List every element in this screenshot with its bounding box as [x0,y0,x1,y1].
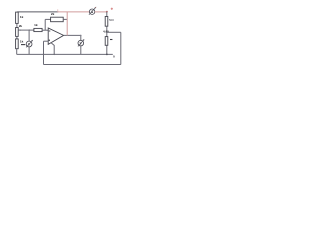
wire V2 bottom lead to ground bus [80,46,82,55]
svg-text:4.99: 4.99 [103,30,109,34]
wiper arrowhead into R2 [18,29,20,31]
svg-text:2k: 2k [19,24,23,28]
needle arrow of V2 [78,40,84,46]
node junction dot Rs-ground bus [106,54,108,56]
needle arrow of ammeter [89,8,95,15]
wire stub between R2 and R3 [16,36,18,39]
wire non-inverting input stub [44,40,49,42]
wire sense tap vertical down to bottom line [120,32,122,64]
resistor RL top right box [105,17,108,27]
wire stub R1 top [16,11,18,14]
wire V1 bottom lead to ground bus [28,47,30,55]
red probe plus mark [111,8,113,10]
wire sense tap branch right [107,31,121,33]
minus sign inverting input [49,30,51,32]
node red terminal dot at wire end [106,11,108,13]
wire red top current path right of ammeter [95,11,107,13]
wire red current path vertical at output node [66,12,68,36]
potentiometer R2 middle left box [16,28,19,37]
resistor Rin horizontal box [34,28,42,31]
wire non-inverting input down to sense line [43,41,45,64]
svg-text:1k: 1k [20,40,24,44]
wire op-amp output [64,34,81,36]
wire wiper tap from R2 right edge [18,29,34,31]
resistor R1 top left box [16,12,19,23]
wire ground bus [17,53,113,55]
wire op-amp ground pin diagonal [51,42,55,54]
svg-text:1k: 1k [34,23,38,27]
wire sense feedback bottom line [44,64,121,66]
red probe tick above wire [57,9,59,11]
wire terminal down to RL [106,12,108,17]
wire red top current path left of ammeter [58,11,90,13]
wire top horizontal black segment [17,11,57,13]
wire Rf left lead [45,18,50,20]
node junction dot output tee [80,35,82,37]
svg-text:0: 0 [113,55,115,59]
svg-text:2k: 2k [51,12,55,16]
svg-text:500: 500 [109,18,114,22]
node dot gnd pin at bus [54,54,55,55]
resistor R3 bottom left box [16,39,19,49]
node junction dot tap-voltmeter [28,29,30,31]
needle arrow of V1 [26,41,32,48]
svg-text:1k: 1k [20,15,24,19]
node dark dot at black-red junction [57,11,58,12]
node dot at bus crossing [43,54,45,56]
label dash right of Rs [110,39,112,41]
voltmeter V1 circle [26,41,32,47]
wire stub between R1 and R2 [16,23,18,27]
wire R3 bottom to ground bus [16,49,18,55]
op-amp U1 triangle [48,28,63,44]
resistor Rs sense box [105,37,108,46]
label dash left of V1 [21,44,25,46]
wire feedback vertical down to inverting node [44,19,46,30]
wire Rf right lead to red vertical [63,18,67,20]
plus sign non-inverting input [49,39,51,41]
wire voltmeter V1 top lead [28,30,30,41]
ammeter A circle [89,9,94,14]
wire Rin right lead to inverting node [42,29,48,31]
resistor Rf feedback box [51,17,64,22]
voltmeter V2 circle [78,40,84,46]
wire V2 top lead from output [80,35,82,40]
wire Rs bottom to ground bus [106,45,108,54]
wire RL bottom to Rs top [106,26,108,36]
